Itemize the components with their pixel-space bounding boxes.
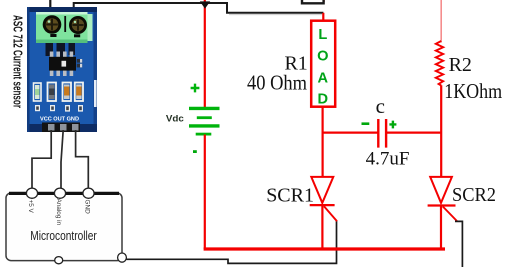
resistor R2 zigzag [436,41,443,86]
wire loop stub at top edge (cropped) [302,0,324,3]
SCR2 thyristor [428,177,457,221]
IC chip U1 [50,52,54,58]
red stub at top right loop [323,0,325,2]
wire from sensor right screw terminal across top to LOAD [74,3,324,13]
microcontroller bottom-center terminal [55,257,63,264]
microcontroller output terminal (bottom right) [118,253,127,262]
wire sensor GND pin to microcontroller GND [76,130,89,189]
svg-text:O: O [317,49,328,65]
bottom rail wire [204,247,445,250]
wire SCR2 gate to bottom edge [455,221,462,267]
SMD component row [34,83,42,101]
svg-text:Vdc: Vdc [166,113,184,124]
svg-text:ASC 712 Current sensor: ASC 712 Current sensor [11,15,25,108]
wire SCR1 cathode to bottom rail [321,205,323,249]
svg-text:40 Ohm: 40 Ohm [247,73,307,95]
svg-text:SCR1: SCR1 [266,185,314,207]
svg-text:R2: R2 [449,54,472,76]
junction arrow at node where battery wire meets top wire [200,1,210,8]
screw right [69,16,87,34]
ACS712 sensor module [11,7,98,132]
wire sensor VCC pin to microcontroller +5V [32,130,51,189]
small pads row [35,105,40,111]
battery Vdc positive wire [204,0,206,108]
small components right of IC [77,59,82,63]
battery negative wire down to bottom rail [204,135,206,250]
svg-text:D: D [318,91,329,107]
wire sensor OUT pin to microcontroller analog in [61,130,63,189]
LOAD letters [317,27,328,108]
divider between screws [64,16,66,32]
wire from sensor left screw terminal to top edge [49,0,51,12]
microcontroller GND terminal [83,188,94,198]
svg-text:GND: GND [84,200,91,215]
svg-text:SCR2: SCR2 [452,184,496,206]
microcontroller block [6,193,122,261]
svg-text:1KOhm: 1KOhm [444,79,502,103]
battery plus sign [191,84,200,93]
capacitor C left wire [323,132,378,134]
capacitor C right wire [386,132,442,134]
microcontroller analog-in terminal [54,188,65,198]
terminal block [36,12,88,43]
svg-text:c: c [376,94,385,118]
screw left [43,15,62,34]
microcontroller +5V terminal [26,188,37,198]
battery Vdc symbol [189,108,220,134]
capacitor C plates [378,119,386,148]
svg-text:Analog in: Analog in [55,199,62,226]
wire from top wire down into LOAD [322,13,324,21]
wire SCR2 cathode to bottom rail [440,206,442,250]
battery minus sign [193,150,197,153]
svg-text:Microcontroller: Microcontroller [30,228,97,243]
SCR1 thyristor [310,177,337,221]
svg-text:R1: R1 [284,52,307,74]
terminal legs on pcb [46,43,54,56]
svg-text:4.7uF: 4.7uF [366,149,410,170]
pin header [42,123,80,133]
svg-text:+5 V: +5 V [27,200,34,214]
wire LOAD bottom to SCR1 anode [322,107,324,177]
load R1 box [311,21,335,107]
capacitor minus sign [362,122,370,125]
slots under screws [50,34,56,37]
wire R2 to SCR2 anode [440,85,442,177]
R2 top wire (light) [440,0,442,43]
svg-text:L: L [318,27,327,43]
svg-text:VCC OUT GND: VCC OUT GND [40,117,79,123]
svg-text:A: A [318,70,329,86]
wire microcontroller output to SCR1 gate [127,221,337,264]
capacitor plus sign [389,121,396,129]
